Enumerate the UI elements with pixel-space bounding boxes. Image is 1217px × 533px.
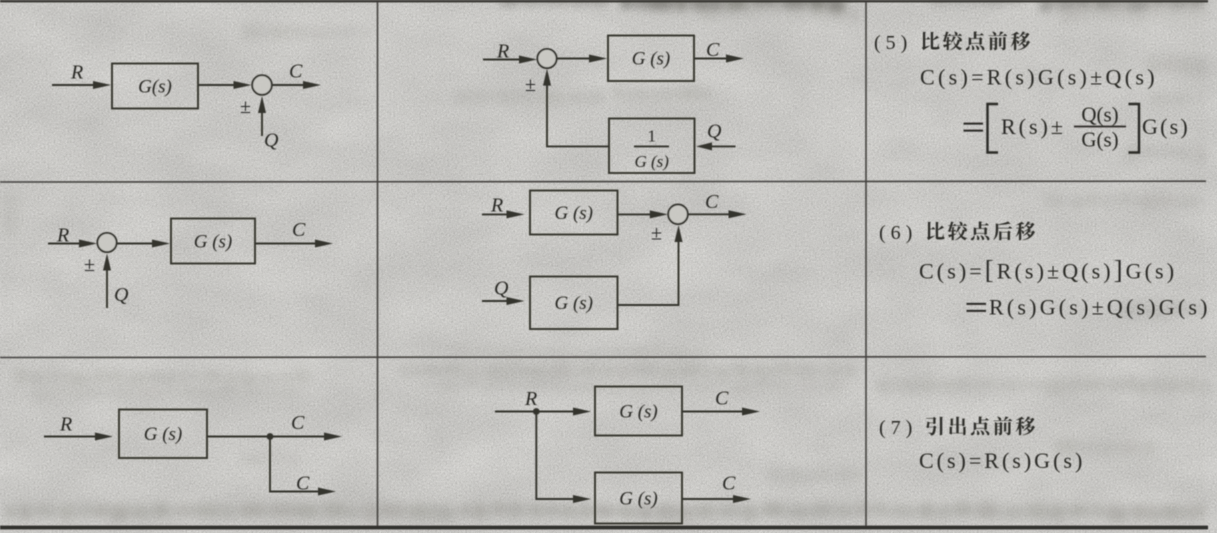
cell r2c2: plus-minus bbox=[651, 223, 662, 245]
cell r1c2: Q input arrow left bbox=[709, 145, 736, 147]
cell r2c2: block G(s) bottom bbox=[530, 277, 618, 330]
cell r3c1: label C bottom bbox=[296, 473, 310, 495]
cell r2c1: output arrow bbox=[255, 243, 318, 245]
cell r1c2: label Q bbox=[707, 121, 722, 143]
cell r2c2: label Q bbox=[494, 278, 509, 300]
cell r2c1: label Q bbox=[114, 284, 129, 306]
cell r2c1: label R bbox=[56, 225, 69, 247]
cell r1c1: label C bbox=[289, 61, 303, 83]
cell r2c2: output arrow bbox=[688, 213, 732, 215]
cell r2c2: label C bbox=[705, 191, 719, 213]
cell r3c1: label R bbox=[59, 414, 72, 436]
cell r1c2: label C bbox=[706, 39, 720, 61]
cell r3c2: branch wire down bbox=[536, 412, 540, 500]
cell r2c2: arrow up into sum bbox=[678, 239, 680, 252]
cell r1c2: plus-minus bbox=[525, 74, 536, 96]
r2c3 heading text 比较点后移 bbox=[927, 221, 1035, 240]
cell r1c1: Q input arrow up bbox=[261, 110, 263, 136]
cell r2c1: block G(s) bbox=[171, 219, 255, 264]
cell r1c2: R input arrow bbox=[483, 59, 522, 61]
cell r2c2: summing junction bbox=[668, 205, 688, 225]
cell r3c2: label C top bbox=[715, 388, 729, 410]
table row divider 1 bbox=[0, 180, 1206, 183]
cell r3c1: block G(s) bbox=[119, 410, 207, 459]
cell r1c1: output arrow bbox=[272, 84, 306, 86]
cell r1c1: summing junction bbox=[252, 75, 272, 95]
cell r3c1: takeoff dot bbox=[267, 433, 274, 440]
cell r3c2: takeoff dot bbox=[533, 408, 540, 415]
cell r1c1: wire box to summing point bbox=[198, 84, 237, 86]
cell r1c1: plus-minus bbox=[240, 96, 251, 118]
cell r3c2: label C bottom bbox=[722, 473, 736, 495]
cell r2c1: plus-minus bbox=[84, 254, 95, 276]
cell r1c2: wire sum to box bbox=[557, 58, 592, 60]
cell r3c2: arrow into top box bbox=[536, 411, 576, 413]
cell r2c1: Q input arrow up bbox=[106, 268, 108, 309]
cell r3c1: label C top bbox=[291, 412, 305, 434]
cell r1c1: label Q bbox=[264, 130, 279, 152]
cell r1c2: block G(s) bbox=[608, 36, 694, 82]
cell r3c2: output arrow bottom bbox=[682, 498, 736, 500]
r2c3 formula line 2 bbox=[967, 304, 987, 311]
cell r1c1: block G(s) bbox=[112, 64, 198, 109]
cell r2c1: R input arrow bbox=[48, 243, 82, 245]
cell r1c2: feedback wire bbox=[547, 85, 609, 146]
r1c3 big left bracket bbox=[988, 104, 999, 153]
cell r2c2: feedback wire up bbox=[618, 250, 679, 305]
cell r3c2: output arrow top bbox=[682, 411, 745, 413]
cell r2c2: wire box to sum bbox=[618, 213, 653, 215]
cell r2c1: wire sum to box bbox=[117, 243, 155, 245]
r1c3 big right bracket bbox=[1129, 104, 1140, 153]
table row divider 2 bbox=[0, 356, 1206, 359]
cell r3c2: block G(s) top bbox=[595, 387, 682, 436]
cell r2c2: Q input arrow bbox=[482, 300, 510, 302]
cell r3c1: branch wire down bbox=[270, 437, 317, 492]
cell r2c1: label C bbox=[292, 219, 306, 241]
cell r3c1: output arrow C top bbox=[270, 436, 327, 438]
r1c3 heading text 比较点前移 bbox=[922, 31, 1030, 50]
cell r1c2: feedback arrow up into sum bbox=[546, 83, 548, 88]
table column divider 1 bbox=[377, 2, 379, 526]
table bottom border bbox=[0, 526, 1208, 530]
cell r3c1: R input arrow bbox=[44, 436, 98, 438]
cell r1c2: summing junction bbox=[537, 49, 556, 68]
cell r2c2: label R bbox=[490, 195, 503, 217]
table top border bbox=[0, 0, 1208, 2]
cell r3c1: branch arrow C bottom bbox=[315, 491, 321, 493]
cell r3c2: block G(s) bottom bbox=[595, 473, 682, 524]
table column divider 2 bbox=[865, 2, 867, 526]
cell r1c1: R input arrow bbox=[52, 84, 96, 86]
cell r1c2: output arrow bbox=[694, 58, 729, 60]
cell r2c1: summing junction bbox=[97, 233, 116, 252]
cell r1c1: label R bbox=[70, 62, 83, 84]
cell r3c2: arrow into bottom box bbox=[536, 498, 576, 500]
cell r1c2: label R bbox=[496, 41, 509, 63]
r3c3 heading text 引出点前移 bbox=[926, 416, 1035, 435]
cell r3c1: wire box to takeoff point bbox=[207, 436, 270, 438]
r1c3 formula line 2: equals bbox=[964, 124, 984, 131]
cell r3c2: R input wire bbox=[495, 411, 536, 413]
cell r2c2: R input arrow bbox=[482, 213, 510, 215]
cell r1c2: block 1/G(s) bbox=[609, 119, 695, 174]
cell r2c2: block G(s) top bbox=[530, 191, 618, 235]
cell r3c2: label R bbox=[524, 388, 537, 410]
